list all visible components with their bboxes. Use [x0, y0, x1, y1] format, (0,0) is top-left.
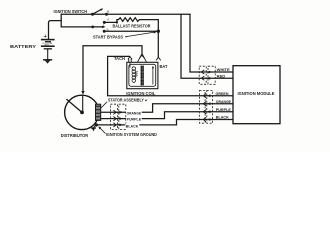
svg-text:I: I — [103, 23, 104, 27]
wire row1 ignition feed — [61, 13, 190, 15]
wire row3 start bypass — [104, 30, 158, 32]
stator pickup — [95, 104, 101, 120]
ignition system ground leader arrow — [98, 126, 105, 133]
svg-text:BATTERY: BATTERY — [10, 44, 36, 49]
connector module top chevrons — [201, 70, 204, 80]
svg-text:DISTRIBUTOR: DISTRIBUTOR — [61, 133, 89, 138]
svg-text:IGNITION MODULE: IGNITION MODULE — [238, 91, 275, 96]
start feed arrowhead — [102, 26, 106, 29]
wire battery to switch riser — [49, 21, 62, 40]
svg-text:WHITE: WHITE — [217, 67, 230, 72]
svg-text:STATOR ASSEMBLY: STATOR ASSEMBLY — [108, 97, 144, 102]
wire resistor out down to junction — [157, 20, 159, 32]
coil internal lead — [152, 66, 154, 85]
coil HT tower — [137, 54, 146, 62]
connector stator chevrons — [113, 110, 116, 127]
battery — [41, 40, 55, 60]
wire row2 to resistor — [104, 20, 117, 23]
svg-text:BLACK: BLACK — [126, 123, 139, 128]
svg-text:S: S — [107, 27, 109, 31]
node black/ground junction — [95, 123, 98, 126]
wire switch feed vertical — [60, 14, 62, 27]
wire purple stator row — [101, 112, 233, 119]
wire junction down to coil BAT — [157, 31, 159, 57]
junction ballast/bypass — [157, 30, 160, 33]
svg-text:BAT: BAT — [160, 64, 168, 69]
stator assembly leader — [100, 102, 107, 109]
coil secondary winding — [141, 65, 144, 85]
junction resistor tap — [116, 21, 118, 23]
coil tach tower — [128, 57, 132, 63]
wire start feed row — [61, 26, 103, 28]
svg-text:NEG: NEG — [45, 45, 50, 47]
svg-text:GREEN: GREEN — [216, 91, 229, 96]
svg-text:RED: RED — [217, 73, 226, 78]
start bypass leader arrow — [125, 31, 157, 37]
wire green run from coil tach — [108, 56, 233, 95]
resistor ballast — [117, 18, 158, 22]
ignition module box — [233, 66, 280, 124]
svg-text:PURPLE: PURPLE — [216, 107, 231, 112]
battery cell text — [42, 42, 53, 46]
wire red riser — [181, 14, 233, 78]
svg-text:TACH: TACH — [114, 56, 125, 61]
svg-text:IGNITION COIL: IGNITION COIL — [126, 91, 155, 96]
wire color labels with white backing — [125, 67, 231, 128]
label black stator — [125, 124, 139, 128]
switch terminal tiny labels — [103, 10, 110, 32]
connector module bottom arrowheads — [207, 94, 211, 121]
wire black stator row — [96, 120, 233, 125]
coil primary winding — [130, 63, 136, 83]
distributor center — [80, 111, 84, 115]
connector module bottom chevrons — [203, 94, 206, 122]
coil BAT tower — [156, 57, 161, 60]
coil core hatch — [135, 71, 138, 78]
svg-text:IGNITION SWITCH: IGNITION SWITCH — [54, 9, 88, 14]
svg-text:START BYPASS: START BYPASS — [93, 35, 123, 40]
ignition coil box — [127, 62, 158, 88]
stator assembly trailing arrow — [145, 100, 148, 102]
svg-text:ORANGE: ORANGE — [127, 110, 142, 115]
ignition switch — [91, 8, 108, 32]
ground battery — [45, 60, 50, 63]
connector stator side dashed — [110, 104, 125, 129]
connector module top arrowheads — [207, 71, 211, 80]
distributor rotor shaft — [82, 95, 84, 112]
distributor circle — [65, 95, 99, 129]
wire white riser — [190, 14, 233, 72]
distributor rotor arm — [66, 99, 82, 112]
connector stator arrowheads — [119, 111, 123, 126]
label orange stator — [126, 110, 142, 115]
svg-text:B: B — [107, 10, 109, 14]
ignition system ground symbol — [91, 125, 97, 131]
svg-text:ORANGE: ORANGE — [216, 99, 232, 104]
svg-text:IGNITION SYSTEM GROUND: IGNITION SYSTEM GROUND — [106, 132, 157, 137]
svg-text:PURPLE: PURPLE — [127, 116, 142, 121]
wire HT coil to distributor — [83, 46, 142, 92]
label purple stator — [126, 116, 142, 121]
wire orange stator row — [101, 104, 233, 113]
svg-text:BALLAST RESISTOR: BALLAST RESISTOR — [113, 24, 151, 29]
connector module bottom dashed — [200, 90, 213, 123]
HT arrowhead into distributor — [81, 91, 84, 95]
svg-text:BLACK: BLACK — [216, 115, 229, 120]
connector module top dashed — [199, 66, 215, 84]
